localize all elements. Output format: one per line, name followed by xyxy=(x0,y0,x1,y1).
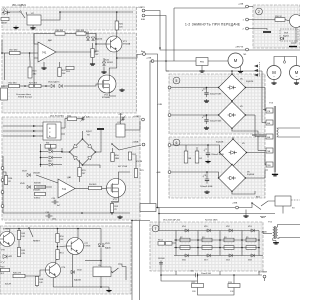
wire r13 drop xyxy=(233,275,235,284)
transformer TV2 primary xyxy=(273,227,274,238)
relay K1 (tall box) xyxy=(116,122,125,137)
junction 159-213 xyxy=(158,213,160,215)
wire box B out bus xyxy=(95,34,97,53)
svg-text:500мкФ 56В: 500мкФ 56В xyxy=(210,120,222,123)
terminal +39V xyxy=(232,203,238,209)
wire bridge2 out right xyxy=(246,114,256,116)
diode bridge VD13-16 xyxy=(218,101,246,129)
diode VD3 (bottom row) xyxy=(229,254,232,257)
resistor R50 xyxy=(111,153,120,162)
svg-text:КД106: КД106 xyxy=(105,248,111,250)
wire VT3 collector up xyxy=(116,30,118,36)
junction box7 176a xyxy=(175,239,177,241)
svg-text:VD47: VD47 xyxy=(22,170,27,172)
wire term2 row xyxy=(249,29,268,31)
terminal box5 left1 xyxy=(168,86,171,89)
resistor R45 xyxy=(17,248,26,257)
svg-text:КЦ402А: КЦ402А xyxy=(247,173,255,176)
wire box A to right xyxy=(41,12,60,20)
wire box7 col x198 xyxy=(197,231,199,256)
resistor R19 2К8 xyxy=(76,30,86,35)
resistor R13 pair xyxy=(158,239,172,245)
wire rail48b xyxy=(249,49,301,51)
resistor R25 220 xyxy=(115,21,124,30)
resistor R57 xyxy=(184,151,192,163)
svg-text:R13-1: R13-1 xyxy=(158,239,163,241)
wire box7 to tv2 xyxy=(262,231,264,234)
svg-text:18М: 18М xyxy=(115,158,119,160)
resistor R18 2К8 xyxy=(55,30,65,35)
resistor R50 xyxy=(56,234,65,243)
resistor R44 45Е xyxy=(89,186,102,189)
svg-text:+24В: +24В xyxy=(238,4,244,6)
svg-text:"НV": "НV" xyxy=(260,215,267,219)
wire box A top long xyxy=(60,11,133,13)
white box left of +39 rail xyxy=(140,204,156,212)
wire diode bus left xyxy=(40,144,42,167)
resistor R46 47К xyxy=(13,273,25,278)
svg-text:-ОНVТХ: -ОНVТХ xyxy=(235,47,244,49)
capacitor C8 100мкФ 400В xyxy=(202,175,209,184)
wire rv1 to M1 xyxy=(208,60,228,62)
diode VD20 xyxy=(49,163,52,166)
wire bridge top xyxy=(82,131,84,139)
wire r46 to vt6 xyxy=(25,270,46,276)
wire R50-R51 xyxy=(57,243,59,250)
svg-text:R3: R3 xyxy=(202,237,204,239)
junction r12 xyxy=(197,274,199,276)
ground (box A left) xyxy=(13,26,18,29)
svg-text:VD6: VD6 xyxy=(182,259,186,261)
junction fb xyxy=(33,85,35,87)
bar mark box2 xyxy=(263,31,271,33)
LED HL2 xyxy=(1,255,12,264)
wire TV2 bot right xyxy=(278,237,300,240)
vertical col1 out xyxy=(176,271,259,275)
wire base VT7 xyxy=(60,245,67,248)
wire dist v4 xyxy=(257,136,259,151)
capacitor C7 200мкФ 400В xyxy=(203,149,224,158)
wire term drop xyxy=(264,278,266,281)
svg-text:R17 4К7: R17 4К7 xyxy=(10,50,19,52)
gray cable segment xyxy=(252,134,266,136)
wire op-amp fb long xyxy=(33,58,35,86)
resistor R42 xyxy=(67,115,77,120)
ground C1 xyxy=(204,99,209,102)
ground boxD xyxy=(106,289,111,292)
wire rail 213 xyxy=(159,213,275,215)
switch contact SA1 xyxy=(20,11,25,18)
wire m3 gnd stub xyxy=(296,80,298,82)
wire bottom rail boxD xyxy=(53,286,109,288)
wire box7 col x176 xyxy=(175,231,177,256)
wire c8 top xyxy=(206,172,208,177)
svg-text:VD2: VD2 xyxy=(226,226,230,228)
transistor VT7 KT818 xyxy=(67,238,92,255)
terminal +24V (box C right top) xyxy=(133,116,144,121)
junction dbus3 xyxy=(40,164,42,166)
capacitor C55 4п7 xyxy=(52,198,59,204)
diode VD7 (bottom row) xyxy=(207,254,210,257)
diode VD19 xyxy=(49,156,52,159)
wire bottom rail 295 xyxy=(198,288,235,296)
wire left rect xyxy=(3,85,9,87)
ground C2 xyxy=(204,126,209,129)
junction box7 198b xyxy=(197,247,199,249)
svg-text:RESET: RESET xyxy=(33,241,41,243)
junction mid bus a xyxy=(111,212,113,214)
transformer TV2 secondary xyxy=(276,227,277,238)
resistor R43 10К xyxy=(17,231,26,240)
trimmer R23 xyxy=(1,86,8,100)
svg-text:R5: R5 xyxy=(246,237,248,239)
resistor R38 xyxy=(35,192,46,195)
svg-text:R2-R10 180К: R2-R10 180К xyxy=(205,220,218,222)
terminal 2 box2 xyxy=(246,27,249,30)
svg-text:1 М: 1 М xyxy=(230,291,234,293)
svg-text:КО8О2: КО8О2 xyxy=(34,198,40,200)
wire R44 to VT2 xyxy=(102,188,108,190)
svg-text:КД202: КД202 xyxy=(283,36,290,38)
wire rail 220 xyxy=(132,220,150,222)
op-amp DA1 741 xyxy=(58,176,75,198)
wire op-amp minus xyxy=(34,57,38,59)
wire pot up xyxy=(59,62,61,68)
diode bridge VD9-12 КЦ402Е xyxy=(218,73,246,101)
wire VT2 source xyxy=(112,198,118,204)
ground (box A relay) xyxy=(30,26,35,29)
wire tv3 stub2 xyxy=(258,150,266,152)
svg-text:VD45: VD45 xyxy=(20,183,25,185)
wire rail 207 to +39V xyxy=(150,207,235,209)
resistor R13b 1М xyxy=(228,282,240,288)
svg-text:R34: R34 xyxy=(46,143,49,145)
svg-text:+24В: +24В xyxy=(146,58,152,60)
circled 7 xyxy=(152,225,159,232)
svg-text:+24ВТХ: +24ВТХ xyxy=(137,7,145,9)
ground VD42 xyxy=(101,70,106,73)
junction c7 xyxy=(207,144,209,146)
small circle junction xyxy=(283,61,285,63)
ground TV2 xyxy=(273,241,279,245)
wire tv2 gnd stem xyxy=(272,238,274,240)
terminal box6 left1 xyxy=(168,144,171,147)
wire R22-R27 xyxy=(20,85,30,87)
wire c7 top xyxy=(207,145,209,150)
switch K1.1 xyxy=(111,143,119,150)
wire r58 top xyxy=(196,147,198,151)
svg-text:-600В: -600В xyxy=(261,231,267,233)
resistor R9 (row2) xyxy=(246,246,256,250)
junction c1 xyxy=(206,87,208,89)
resistor R22 3К3 xyxy=(9,83,20,88)
block frame: HV multiplier unit 7 xyxy=(150,222,263,271)
wire vt6 down xyxy=(52,278,54,288)
wire R42 to C53 xyxy=(77,118,83,120)
wire R26 down gnd xyxy=(92,58,94,63)
wire diodes to VT4 xyxy=(64,84,99,86)
junction rail r43 xyxy=(18,228,20,230)
wire tv3 sec bot xyxy=(278,136,301,138)
trimmer cap C53 xyxy=(81,116,90,122)
wire K1 terminal xyxy=(125,121,140,130)
svg-text:VD4: VD4 xyxy=(182,226,186,228)
ground TV3 xyxy=(272,172,278,176)
pot R20a xyxy=(28,67,37,78)
diode VD43a xyxy=(86,37,89,40)
arrow input marks xyxy=(33,125,36,137)
svg-text:200мкФ 63В: 200мкФ 63В xyxy=(210,93,222,96)
wire top r50 xyxy=(112,148,114,153)
terminal boxC left 1 xyxy=(1,167,4,170)
svg-text:741: 741 xyxy=(62,187,67,191)
resistor R27 3К3 xyxy=(29,83,41,88)
wire rail48 xyxy=(160,48,246,50)
wire opamp in2 xyxy=(36,186,52,188)
trimmer cap C54 xyxy=(118,114,126,121)
wire box7 row3 xyxy=(174,247,259,249)
resistor R7 (row2) xyxy=(202,246,212,250)
wire +39 to BK2 xyxy=(239,203,253,208)
svg-text:+340В: +340В xyxy=(132,142,139,144)
diode VD1 (top row) xyxy=(251,229,254,232)
circled 5 xyxy=(173,77,180,84)
wire vt7 emitter xyxy=(72,255,74,288)
svg-text:4п7: 4п7 xyxy=(57,205,60,207)
svg-text:~: ~ xyxy=(296,74,298,78)
svg-text:VD32: VD32 xyxy=(77,269,82,271)
svg-text:VD29: VD29 xyxy=(105,243,110,245)
wire gnd stub xyxy=(108,287,110,289)
wire M1 gnd xyxy=(240,67,242,70)
MOSFET VT4 KP904A xyxy=(98,75,116,99)
resistor R12 11В xyxy=(192,282,204,288)
bar mark box2 low xyxy=(289,46,297,48)
ground C8 xyxy=(204,190,209,193)
terminal boxC left 2 xyxy=(1,179,4,182)
motor M2 xyxy=(267,66,281,80)
junction bus157 xyxy=(157,207,159,209)
svg-text:VD1-VD8 44Р-320: VD1-VD8 44Р-320 xyxy=(163,220,181,222)
wire VT4 top xyxy=(109,58,117,75)
svg-text:+СТВВМ: +СТВВМ xyxy=(258,272,267,274)
ground op-amp xyxy=(41,66,46,69)
wire R18 left xyxy=(34,34,55,45)
wire TV2 top right xyxy=(278,225,300,228)
diode VD8 (bottom row) xyxy=(251,254,254,257)
wire r48 down xyxy=(36,286,38,288)
terminal 1 box2 xyxy=(246,18,249,21)
wire input to R17 xyxy=(2,52,10,54)
svg-text:КД10: КД10 xyxy=(48,160,52,162)
transistor VT8 KT203 xyxy=(0,232,15,247)
wire diode stubs xyxy=(41,152,63,165)
resistor R53 7К xyxy=(110,204,119,213)
svg-text:VD43: VD43 xyxy=(84,32,90,34)
svg-text:VD1-4 КД521: VD1-4 КД521 xyxy=(12,5,27,7)
bus x139 down xyxy=(139,221,141,300)
diode VD4 xyxy=(51,84,54,87)
wire diode pair rail xyxy=(87,34,89,38)
junction box7 198a xyxy=(197,239,199,241)
wire bus166 ext xyxy=(166,61,169,71)
wire box A top rail xyxy=(3,11,20,13)
terminal box5 left2 xyxy=(168,114,171,117)
wire bridge right xyxy=(96,129,102,152)
wire left rail 260 xyxy=(85,260,101,262)
svg-text:4К7 17VА: 4К7 17VА xyxy=(118,165,128,168)
wire boxC-D gap rail xyxy=(5,222,132,224)
ground BK2 xyxy=(243,214,248,217)
svg-text:+24В: +24В xyxy=(157,104,163,106)
terminal boxC left 4 xyxy=(1,205,4,208)
lamp HL1 circle xyxy=(290,15,303,28)
svg-text:100к: 100к xyxy=(52,219,56,221)
sub-box VD8 xyxy=(280,29,298,41)
junction botD xyxy=(100,286,102,288)
junction dbus1 xyxy=(40,151,42,153)
wire box5 rail2 xyxy=(169,114,219,116)
capacitor C16 20мкФ 2кВ xyxy=(193,273,200,277)
junction row86 a xyxy=(24,85,26,87)
wire t2 to bus166 xyxy=(145,16,166,62)
svg-text:КД547: КД547 xyxy=(86,131,93,133)
resistor R36 2К xyxy=(4,176,13,185)
wire vt7 collector xyxy=(77,229,79,238)
relay K3 xyxy=(275,196,291,206)
resistor R51 xyxy=(56,250,65,260)
diode VD47 1N4148 xyxy=(27,173,30,176)
wire left col xyxy=(2,156,4,213)
wire R55 up xyxy=(79,160,81,168)
wire vd29 down xyxy=(100,229,102,244)
block frame: logic/driver unit (box C) xyxy=(2,117,140,220)
wire pot up xyxy=(29,53,31,67)
junction left 275 xyxy=(160,274,162,276)
connector arrows xyxy=(254,62,260,77)
block frame: rectifier unit 6 xyxy=(169,137,265,198)
block frame: modulator unit (top-left box A) xyxy=(2,7,137,30)
wire VT3 emitter down xyxy=(116,52,118,58)
terminal boxC left 3 xyxy=(1,191,4,194)
svg-text:47Е: 47Е xyxy=(21,253,25,255)
diode VD43b xyxy=(91,37,94,40)
terminal box6 left2 xyxy=(168,171,171,174)
resistor R1 (2К7) xyxy=(1,17,9,20)
bar mark boxC xyxy=(97,128,104,130)
capacitor C1 200мкФ xyxy=(202,88,222,97)
terminal -OHVTX xyxy=(235,47,248,51)
MOSFET VT2 KP904 xyxy=(107,179,126,204)
wire box7 left entry xyxy=(159,222,174,231)
resistor R40 5К2 xyxy=(1,267,10,275)
svg-text:R27 3К3: R27 3К3 xyxy=(29,83,38,85)
diode bridge VD17-20 xyxy=(219,138,247,166)
terminal +STV xyxy=(258,272,267,278)
wire VD42 gnd xyxy=(103,67,105,70)
wire VD42 connect xyxy=(103,58,105,62)
ground RV1 xyxy=(199,69,204,72)
svg-text:КД105В: КД105В xyxy=(74,279,82,281)
bus x150 vertical xyxy=(150,61,153,208)
wire t1 to bus160 xyxy=(145,11,160,49)
svg-text:КТ818: КТ818 xyxy=(84,246,91,248)
wire rv1 gnd xyxy=(201,66,203,70)
wire x4.5 drop xyxy=(4,53,6,80)
transformer TV3 core xyxy=(273,106,275,172)
junction dbus2 xyxy=(40,157,42,159)
resistor R3 (row1) xyxy=(202,238,212,242)
diode VD29b KD105 xyxy=(102,244,105,247)
resistor R24 xyxy=(66,66,74,73)
svg-text:47К 2В: 47К 2В xyxy=(136,161,143,163)
wire K1 up xyxy=(120,113,122,124)
op-amp DA2 741 xyxy=(38,39,56,62)
ground C7 xyxy=(205,160,210,163)
relay K5 xyxy=(93,265,111,277)
resistor R37 xyxy=(35,185,46,188)
wire bridge4 out xyxy=(246,177,266,179)
wire vd29 to relay xyxy=(100,248,102,268)
junction row86 b xyxy=(45,85,47,87)
diode VD6 (bottom row) xyxy=(185,254,188,257)
wire bridge1 bottom xyxy=(231,100,233,103)
wire box7 col x259 xyxy=(258,231,260,256)
wire mid bus xyxy=(3,212,130,214)
wire vt8 chain xyxy=(18,240,20,248)
wire R18-R19 xyxy=(65,33,76,35)
block frame: indicator unit 2 (top-right) xyxy=(253,5,300,48)
wire term1 to R56 xyxy=(249,19,276,21)
svg-text:20мкФ 2кВ: 20мкФ 2кВ xyxy=(201,272,212,275)
resistor R17 4К7 xyxy=(10,50,20,55)
wire op-amp bias down xyxy=(43,62,45,66)
wire R25 top rail xyxy=(116,12,118,21)
svg-text:КЦ402Е: КЦ402Е xyxy=(246,81,254,83)
capacitor C49 100к xyxy=(46,212,53,218)
wire box6 rail2 xyxy=(169,172,219,178)
capacitor C11 xyxy=(158,257,164,266)
junction mid bus b xyxy=(81,212,83,214)
wire c2 stub xyxy=(206,115,208,117)
transformer TV3 windings xyxy=(266,108,273,167)
svg-text:1-2 ЗАМКНУТЬ ПРИ ПЕРЕДАЧЕ: 1-2 ЗАМКНУТЬ ПРИ ПЕРЕДАЧЕ xyxy=(185,23,240,27)
wire R56 to lamp xyxy=(285,20,290,22)
ground VT4 xyxy=(119,88,124,91)
junction R17 left xyxy=(1,52,3,54)
junction rail r50 xyxy=(57,228,59,230)
resistor R48 10К xyxy=(35,277,44,286)
dash K3 right xyxy=(291,199,300,201)
resistor R2 (row1) xyxy=(180,238,190,242)
resistor pair R34 xyxy=(45,143,56,149)
svg-text:R46 47К: R46 47К xyxy=(13,273,22,275)
svg-text:VD5: VD5 xyxy=(204,226,208,228)
wire c bus 148 xyxy=(61,148,63,151)
bus x159 down xyxy=(158,208,160,223)
bus x134 down xyxy=(131,221,133,300)
wire left bus boxB xyxy=(1,40,3,53)
wire k5 down xyxy=(100,277,102,288)
LED VD1 xyxy=(2,8,10,15)
wire DD1 inputs xyxy=(3,125,39,127)
junction bus166 xyxy=(165,60,167,62)
svg-text:VD42: VD42 xyxy=(104,60,110,62)
junction bus160 xyxy=(159,47,161,49)
wire k5 right xyxy=(111,272,112,274)
wire box A relay rail xyxy=(26,12,28,18)
wire motors drop xyxy=(284,57,286,61)
